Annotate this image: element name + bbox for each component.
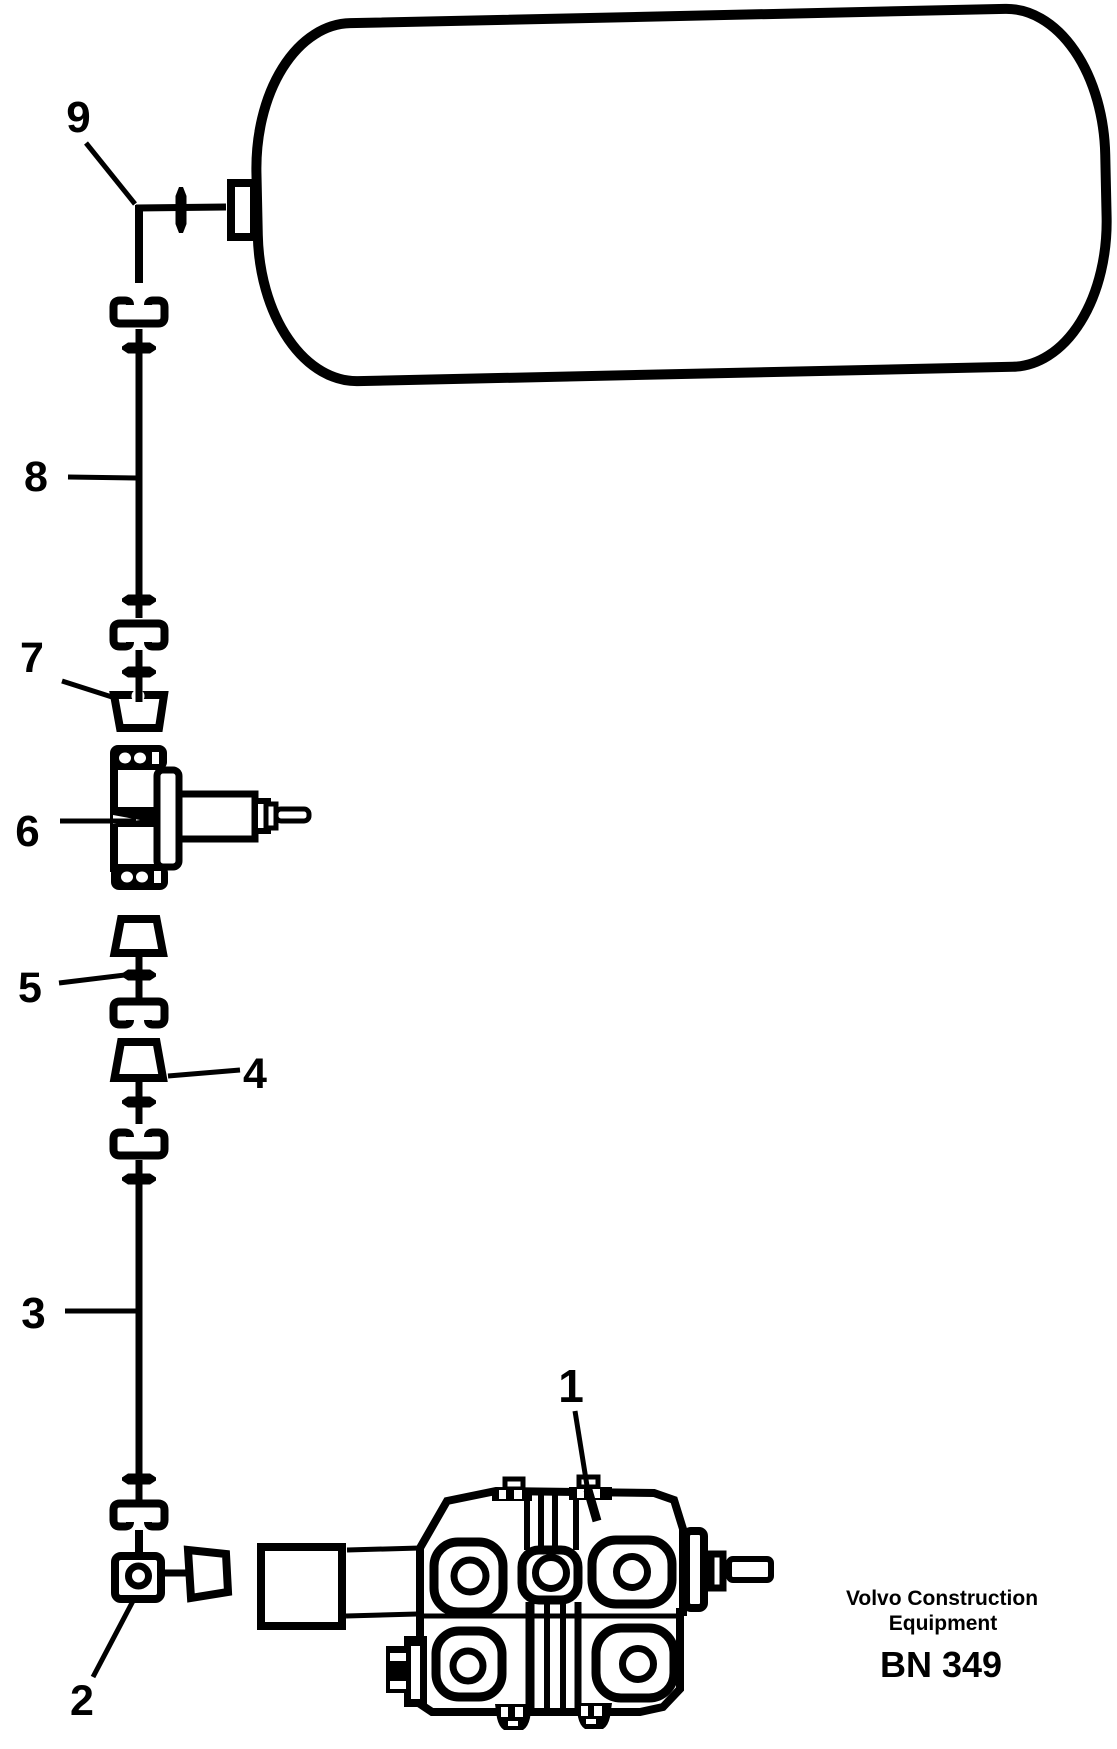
port pad top-right [592,1540,672,1604]
svg-text:Volvo Construction: Volvo Construction [846,1587,1038,1610]
svg-text:1: 1 [558,1360,584,1412]
fitting tick (bowtie) at 1479 [122,1474,156,1485]
wire: elbow vertical segment [135,205,143,283]
svg-text:7: 7 [20,634,44,682]
top-right bolt [569,1477,612,1500]
leader line 7 [62,681,112,697]
fitting tick (bowtie) at 600 [122,595,156,606]
svg-text:9: 9 [66,93,90,142]
fitting tick (bowtie) at 975 [122,970,156,981]
coupling nut (open bottom) at 1516 [114,1504,165,1527]
left bottom flange [386,1636,427,1707]
coupling nut (open bottom) at 1013 [114,1002,165,1025]
wire: pipe into part 2 [135,1530,143,1560]
coupling nut (open top) below elbow [114,301,165,324]
body [114,766,160,868]
port pad bottom-left [436,1631,502,1697]
bottom-left bolt [495,1704,532,1730]
svg-text:5: 5 [18,964,42,1012]
part 2: banjo fitting square [115,1556,161,1599]
svg-text:Equipment: Equipment [889,1612,998,1635]
leader line 4 [168,1070,240,1076]
port pad bottom-right [596,1628,674,1698]
coupling nut (open bottom) at 636 [114,624,165,647]
spool lines above [527,1495,576,1550]
right end plate [686,1531,704,1608]
fitting tick (bowtie) at 1102 [122,1097,156,1108]
wire: pipe below cone 4 [136,1078,143,1124]
wire: elbow horizontal line to port [136,207,226,208]
part 1: control valve body [420,1491,683,1712]
leader line 8 [68,477,137,478]
connector tube top line [347,1548,420,1550]
svg-text:2: 2 [70,1677,94,1725]
svg-text:BN 349: BN 349 [880,1644,1002,1685]
bottom flange [111,865,168,890]
leader line 9 [86,143,135,204]
leader line 1 [575,1411,588,1492]
svg-text:4: 4 [243,1050,267,1098]
bottom-right bolt [576,1703,612,1729]
leader line 2 [93,1601,133,1677]
top flange [110,745,167,770]
leader line 5 [59,974,133,983]
svg-text:8: 8 [24,453,48,501]
spool lines below [530,1602,578,1709]
fitting tick (bowtie) at 672 [122,667,156,678]
fitting tick on elbow (vertical bowtie) [176,187,187,233]
wire: pipe segment 8 (upper) [136,329,143,618]
fitting tick (bowtie) [122,343,156,354]
wire: pipe below cone5 [136,953,143,1000]
cylinder [179,794,255,839]
accumulator tank [253,7,1110,383]
port pad top-left [434,1542,503,1612]
svg-text:3: 3 [21,1289,45,1338]
leader line 6 [60,819,136,824]
leader line 3 [65,1309,137,1314]
part 7: cone fitting (wide top, narrow bottom) [114,688,164,728]
cone fitting above part 5 (narrow top, wide bottom) [115,919,164,953]
fitting tick (bowtie) at 1179 [122,1174,156,1185]
svg-text:6: 6 [15,807,39,856]
inlet block rectangle [261,1547,342,1626]
part 6: charging valve assembly [110,745,309,890]
wire: pipe below nut [136,650,143,700]
connector tube bottom line [346,1614,417,1616]
part 4: cone fitting (narrow top, wide bottom) [115,1042,164,1078]
rod tip [276,809,309,821]
side plate [157,770,179,867]
valve midline [420,1614,683,1619]
coupling nut (open top) at 1144 [114,1133,165,1156]
port pad top-center [522,1550,578,1600]
shaft rod [729,1559,771,1580]
cone fitting right of part 2 (wide left, narrow right) [188,1550,228,1598]
tank port [231,183,254,237]
shaft step [711,1554,723,1588]
wire: stub right of part 2 [161,1570,188,1577]
wire: pipe segment 3 (long) [136,1160,143,1502]
top-left bolt [492,1479,532,1501]
middle band [111,807,161,827]
